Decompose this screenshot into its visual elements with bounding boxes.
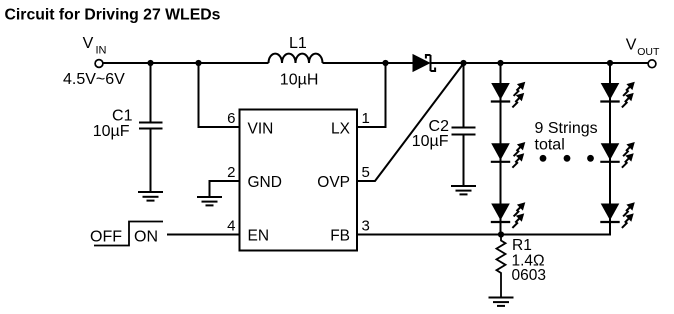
svg-text:1: 1 (362, 110, 370, 127)
op-amp U1 (boost converter IC box) (240, 110, 358, 251)
node junction C1 tap (147, 60, 153, 66)
diode D1 (Schottky) (413, 55, 435, 72)
svg-text:OFF: OFF (90, 229, 122, 246)
wire OVP diagonal (357, 64, 464, 182)
svg-text:R1: R1 (512, 237, 532, 254)
ground (C2) (451, 186, 476, 194)
svg-text:4.5V~6V: 4.5V~6V (63, 71, 125, 88)
capacitor C1 (93, 63, 163, 191)
node junction diode/C2/OVP (460, 60, 466, 66)
ground (C1) (138, 192, 163, 201)
svg-text:FB: FB (330, 228, 350, 245)
node 9 strings total label (535, 120, 598, 154)
wire GND pin branch (210, 181, 240, 196)
svg-text:5: 5 (362, 164, 370, 181)
node OFF/ON step waveform (90, 222, 163, 246)
ground (R1) (489, 298, 514, 306)
svg-text:OVP: OVP (317, 174, 350, 191)
node VOUT terminal (626, 36, 660, 67)
svg-text:GND: GND (248, 174, 282, 191)
resistor R1 (497, 235, 546, 298)
ground (GND pin) (197, 197, 222, 205)
svg-text:V: V (83, 35, 94, 52)
wire VIN branch (199, 63, 240, 127)
node junction LED string 1 top (497, 60, 503, 66)
wire LED string 9 (357, 63, 611, 235)
LED D2 (string1 top) (491, 82, 526, 108)
LED D7 (string9 bottom) (600, 202, 635, 228)
node ellipsis dots (9 strings) (540, 155, 594, 162)
svg-text:6: 6 (227, 110, 235, 127)
node junction FB/R1 (498, 231, 504, 237)
wire main top rail (103, 62, 648, 64)
svg-text:9 Strings: 9 Strings (535, 120, 598, 137)
svg-text:4: 4 (227, 218, 235, 235)
wire EN input (167, 234, 240, 236)
svg-text:10µH: 10µH (280, 72, 319, 89)
wire LX branch (357, 63, 386, 127)
svg-text:Circuit for Driving 27 WLEDs: Circuit for Driving 27 WLEDs (5, 7, 221, 24)
LED D5 (string9 top) (600, 82, 635, 108)
svg-text:10µF: 10µF (412, 133, 449, 150)
svg-text:3: 3 (362, 218, 370, 235)
svg-text:ON: ON (134, 229, 158, 246)
svg-text:C1: C1 (112, 108, 133, 125)
LED D3 (string1 mid) (491, 142, 526, 168)
node junction LED string 9 top (607, 60, 613, 66)
svg-text:IN: IN (96, 45, 107, 57)
svg-text:0603: 0603 (512, 267, 546, 284)
capacitor C2 (412, 63, 476, 185)
svg-text:L1: L1 (289, 35, 307, 52)
LED D4 (string1 bottom) (491, 202, 526, 228)
node junction LX tap (382, 60, 388, 66)
wire LED string 1 (500, 63, 502, 235)
svg-text:2: 2 (227, 164, 235, 181)
inductor L1 (269, 35, 323, 89)
svg-text:VIN: VIN (248, 121, 274, 138)
LED D6 (string9 mid) (600, 142, 635, 168)
svg-text:total: total (535, 137, 565, 154)
svg-text:OUT: OUT (637, 46, 660, 58)
node junction VIN tap (195, 60, 201, 66)
svg-text:EN: EN (248, 228, 270, 245)
svg-text:V: V (626, 36, 637, 53)
svg-text:LX: LX (331, 121, 351, 138)
node VIN terminal (63, 35, 125, 88)
svg-text:10µF: 10µF (93, 123, 130, 140)
